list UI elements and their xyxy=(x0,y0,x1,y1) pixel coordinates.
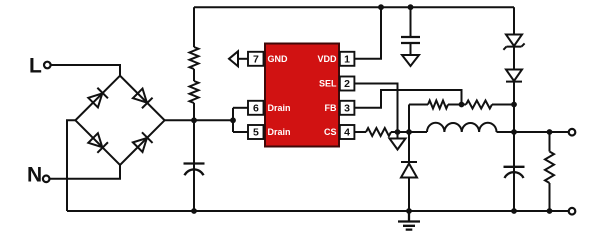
node junction C3 bottom rail xyxy=(511,208,517,214)
node junction C1 bottom rail xyxy=(191,208,197,214)
node junction output resistor top xyxy=(547,129,553,135)
capacitor C2 VDD bypass xyxy=(401,37,420,43)
capacitor C1 input bulk cap xyxy=(184,164,205,176)
wire VDD pin 1 to top rail xyxy=(354,7,381,59)
svg-text:7: 7 xyxy=(253,54,259,66)
op-amp U1 (controller IC body) xyxy=(265,44,339,147)
wire top rail right drop to zener xyxy=(513,7,515,34)
node junction D6 bottom rail xyxy=(406,208,412,214)
svg-text:Drain: Drain xyxy=(268,103,291,113)
node junction inductor left xyxy=(406,129,412,135)
ground earth symbol xyxy=(398,211,420,230)
pin 5 box xyxy=(248,125,264,139)
wire bottom rail xyxy=(67,210,568,212)
wire stub to pin 5 xyxy=(233,131,248,133)
node output terminal minus xyxy=(569,208,576,215)
wire Z1 to D5 xyxy=(513,47,515,70)
resistor R2 xyxy=(190,81,199,103)
resistor R4 divider lower xyxy=(462,101,515,109)
svg-text:2: 2 xyxy=(344,78,350,90)
diode D4 bridge lower-right xyxy=(132,132,152,152)
node N terminal label xyxy=(27,164,42,187)
bridge diamond wires xyxy=(75,76,164,165)
pin 1 box xyxy=(340,52,355,66)
svg-text:N: N xyxy=(27,164,42,187)
wire CS node to inductor node xyxy=(398,131,410,133)
pin label CS xyxy=(324,127,337,137)
svg-text:3: 3 xyxy=(344,103,350,115)
wire output node to C3 xyxy=(513,132,515,211)
diode D6 freewheeling xyxy=(401,132,417,211)
svg-text:GND: GND xyxy=(268,54,289,64)
node junction divider midpoint xyxy=(459,102,465,108)
wire N to bridge bottom xyxy=(50,165,120,179)
pin label VDD xyxy=(317,54,337,64)
wire top rail xyxy=(194,6,514,8)
svg-text:VDD: VDD xyxy=(317,54,337,64)
ground arrow under CS node xyxy=(390,132,406,150)
resistor R3 divider upper xyxy=(409,101,462,109)
resistor R6 output load xyxy=(545,132,554,211)
wire stub to pin 6 xyxy=(233,107,248,109)
pin 7 box xyxy=(248,52,264,66)
node junction top rail cap branch xyxy=(408,4,414,10)
node L terminal circle xyxy=(44,62,51,69)
node junction R6 bottom rail xyxy=(547,208,553,214)
wire top rail left drop to R1 xyxy=(193,7,195,47)
node junction main wire at cap/resistor column xyxy=(191,117,197,123)
pin label Drain (pin 5) xyxy=(268,127,291,137)
pin 6 box xyxy=(248,101,264,115)
svg-text:5: 5 xyxy=(253,127,259,139)
capacitor C3 output xyxy=(504,167,525,178)
svg-text:6: 6 xyxy=(253,103,259,115)
pin label GND xyxy=(268,54,289,64)
node junction CS/SEL xyxy=(395,129,401,135)
node junction VDD top rail xyxy=(378,4,384,10)
diode D5 blocking xyxy=(506,70,522,82)
inductor L1 xyxy=(409,123,514,132)
wire output line xyxy=(514,131,568,133)
svg-text:SEL: SEL xyxy=(319,79,337,89)
node junction output cap xyxy=(511,129,517,135)
pin 2 box xyxy=(340,77,355,91)
resistor R1 xyxy=(190,47,199,69)
resistor R5 CS sense xyxy=(354,128,397,136)
pin label FB xyxy=(325,103,337,113)
wire drain bracket vertical xyxy=(232,108,234,132)
wire L to bridge top xyxy=(51,65,120,76)
wire C2 to ground arrow xyxy=(410,43,412,55)
node N terminal circle xyxy=(43,176,50,183)
svg-text:L: L xyxy=(29,55,42,78)
wire R1 to R2 xyxy=(193,69,195,81)
pin 3 box xyxy=(340,101,355,115)
diode D3 bridge lower-left xyxy=(88,133,108,153)
svg-text:1: 1 xyxy=(344,54,350,66)
wire FB pin 3 to divider midpoint xyxy=(354,90,461,108)
svg-text:4: 4 xyxy=(344,127,350,139)
wire bridge left vertex to bottom rail xyxy=(67,120,75,211)
node output terminal plus xyxy=(569,129,576,136)
diode D1 bridge upper-left xyxy=(88,88,108,108)
ground arrow under C2 xyxy=(402,55,419,66)
diode D2 bridge upper-right xyxy=(132,88,152,108)
svg-text:CS: CS xyxy=(324,127,337,137)
wire main wire to capacitor C1 xyxy=(193,120,195,211)
wire bridge right vertex to drain bracket xyxy=(165,119,233,121)
wire divider left drop xyxy=(408,105,410,133)
wire SEL pin 2 down to CS node xyxy=(354,84,397,133)
wire divider junction to output node xyxy=(513,105,515,133)
wire rail to capacitor C2 xyxy=(410,7,412,37)
ground arrow at pin 7 xyxy=(229,51,248,66)
wire R2 to main wire xyxy=(193,103,195,120)
pin label SEL xyxy=(319,79,337,89)
zener diode Z1 xyxy=(503,35,524,50)
pin 4 box xyxy=(340,125,355,139)
pin label Drain (pin 6) xyxy=(268,103,291,113)
node junction main wire at drain bracket xyxy=(230,117,236,123)
svg-text:FB: FB xyxy=(325,103,337,113)
svg-text:Drain: Drain xyxy=(268,127,291,137)
node junction divider right xyxy=(511,102,517,108)
wire D5 to divider junction xyxy=(513,82,515,105)
node L terminal label xyxy=(29,55,42,78)
